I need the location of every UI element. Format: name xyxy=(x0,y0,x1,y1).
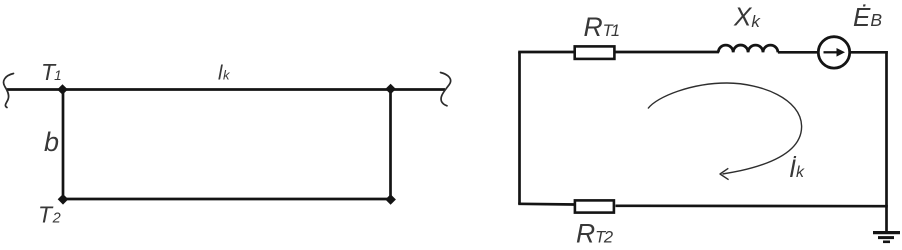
node top-right junction xyxy=(385,84,396,95)
wire: top segment RT1 to Xk xyxy=(616,51,720,54)
ground bar 2 xyxy=(878,236,894,239)
source EB circle xyxy=(818,37,849,68)
resistor RT2 xyxy=(575,200,614,212)
ground bar 1 xyxy=(873,231,900,234)
wire: bottom segment left of RT2 xyxy=(518,202,574,205)
source EB arrowhead xyxy=(837,48,846,57)
wire: top segment Xk to EB source xyxy=(778,51,818,54)
wire: vertical segment (right) xyxy=(389,89,392,200)
svg-text:b: b xyxy=(44,127,59,157)
svg-text:lk: lk xyxy=(218,63,231,85)
wire: bottom conductor T2 line xyxy=(63,198,391,201)
svg-text:ĖB: ĖB xyxy=(853,2,882,32)
svg-text:T1: T1 xyxy=(41,59,62,85)
svg-text:İk: İk xyxy=(789,155,805,183)
current loop arrow Ik (arc) xyxy=(648,83,802,174)
svg-text:T2: T2 xyxy=(38,202,61,228)
svg-text:RT2: RT2 xyxy=(576,219,613,249)
resistor RT1 xyxy=(575,46,615,59)
wire: loop right side xyxy=(885,51,888,232)
node T1 junction xyxy=(57,84,68,95)
wire: top segment left of RT1 xyxy=(518,51,573,54)
break symbol left end xyxy=(4,74,14,108)
wire: loop left side xyxy=(518,52,521,204)
node T2 junction xyxy=(58,194,69,205)
break symbol right end xyxy=(441,73,451,106)
wire: top segment source to right corner xyxy=(851,51,888,54)
current loop arrowhead xyxy=(720,168,729,179)
node bottom-right junction xyxy=(385,194,396,205)
svg-text:RT1: RT1 xyxy=(584,12,619,42)
wire: bottom segment RT2 to ground corner xyxy=(616,204,888,207)
inductor Xk coil xyxy=(718,45,778,52)
wire: top conductor T1 line xyxy=(7,88,445,91)
svg-text:Xk: Xk xyxy=(733,2,761,32)
source EB arrow shaft xyxy=(824,51,839,53)
ground bar 3 xyxy=(883,241,890,244)
wire: vertical segment b (left) xyxy=(62,90,65,200)
